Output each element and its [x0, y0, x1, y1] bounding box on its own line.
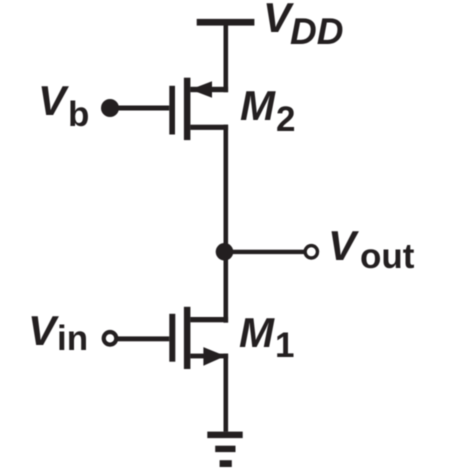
transistor M1 channel bar: [184, 307, 191, 369]
wire VDD to M2 source: [224, 25, 229, 92]
svg-text:V: V: [28, 307, 59, 354]
svg-text:in: in: [57, 319, 88, 358]
ground bar 2: [215, 446, 235, 452]
svg-text:out: out: [360, 237, 415, 276]
transistor M2 source arrow: [190, 81, 212, 97]
VDD supply bar: [197, 19, 255, 26]
transistor M1 source lead: [190, 354, 228, 359]
node Vout terminal circle: [305, 246, 317, 258]
svg-text:M: M: [240, 82, 276, 129]
ground bar 1: [207, 432, 242, 439]
transistor M1 gate bar: [169, 314, 175, 362]
transistor M2 source lead: [190, 87, 228, 92]
transistor M1 drain lead: [190, 317, 228, 322]
wire Vin to M1 gate: [114, 336, 169, 341]
svg-text:1: 1: [275, 326, 294, 365]
node output junction dot: [216, 243, 234, 261]
svg-text:DD: DD: [290, 11, 343, 52]
transistor M2 drain lead: [190, 125, 228, 130]
transistor M1 source arrow: [203, 347, 225, 366]
node Vb terminal dot: [101, 99, 119, 117]
ground bar 3: [220, 460, 232, 467]
transistor M2 gate bar: [169, 86, 175, 135]
transistor M2 channel bar: [184, 78, 191, 140]
svg-text:M: M: [239, 309, 275, 356]
svg-text:b: b: [68, 95, 89, 134]
svg-text:V: V: [38, 77, 69, 124]
svg-text:2: 2: [276, 100, 295, 139]
svg-text:V: V: [328, 222, 359, 269]
node Vin terminal circle: [104, 332, 117, 345]
wire Vb to M2 gate: [108, 106, 169, 111]
wire M2 drain to output node to M1 drain: [224, 125, 229, 323]
wire node to Vout terminal: [225, 250, 305, 254]
wire M1 source to ground: [224, 354, 229, 432]
